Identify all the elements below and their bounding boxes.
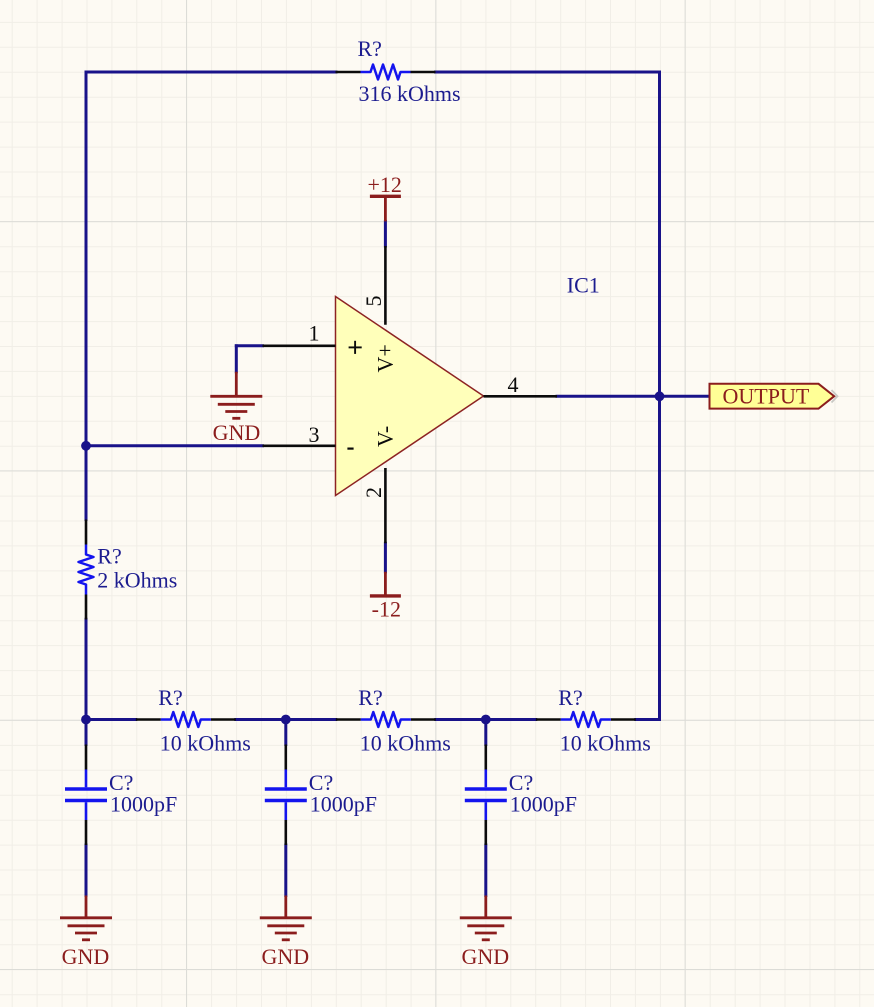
wire: C3 top [484, 720, 487, 745]
capacitor C? 1000pF #3 [465, 745, 577, 846]
svg-text:1000pF: 1000pF [110, 792, 177, 817]
wire: C3 bottom to ground [484, 845, 487, 896]
svg-text:316 kOhms: 316 kOhms [359, 81, 461, 106]
capacitor C? 1000pF #2 [265, 745, 377, 846]
svg-text:R?: R? [358, 685, 382, 710]
svg-text:2 kOhms: 2 kOhms [97, 568, 177, 593]
pin 2 (V-) [384, 468, 387, 543]
plus marker [349, 346, 362, 348]
resistor R? 10 kOhms #1 [136, 685, 251, 756]
resistor R? 316 kOhms [336, 36, 461, 106]
wire: output net [557, 395, 710, 398]
wire: bottom chain segment 1 [86, 718, 136, 721]
op-amp IC1 [263, 246, 600, 543]
svg-text:R?: R? [358, 36, 382, 61]
wire: C2 bottom to ground [284, 845, 287, 896]
wire: bottom chain segment 6 [636, 718, 660, 721]
pin 4 (output) [484, 395, 558, 398]
svg-text:IC1: IC1 [567, 273, 600, 298]
wire: left rail upper [85, 72, 88, 446]
pin 1 (non-inverting input) [263, 344, 336, 347]
wire: top feedback net, right segment [436, 71, 660, 74]
ground GND for C3 [460, 896, 512, 970]
pin 5 (V+) [384, 246, 387, 325]
pin 3 (inverting input) [263, 444, 336, 447]
minus marker [347, 448, 353, 450]
svg-text:-12: -12 [372, 597, 401, 622]
resistor R? 10 kOhms #2 [336, 685, 451, 756]
svg-text:V+: V+ [373, 344, 398, 372]
svg-text:1: 1 [309, 320, 320, 345]
wire: C2 top [284, 720, 287, 745]
wire: V+ supply stub [384, 221, 387, 246]
wire: left rail middle (to R 2k) [85, 446, 88, 520]
wire: non-inverting input to ground, vertical [235, 346, 238, 372]
resistor R? 10 kOhms #3 [536, 685, 651, 756]
svg-text:1000pF: 1000pF [510, 792, 577, 817]
port OUTPUT [710, 383, 838, 408]
svg-text:5: 5 [361, 296, 386, 307]
wire: C1 top [85, 720, 88, 745]
wire: C1 bottom to ground [85, 845, 88, 896]
ground GND at non-inverting input [210, 372, 262, 445]
wire: bottom chain segment 3 [286, 718, 336, 721]
svg-text:3: 3 [309, 422, 320, 447]
svg-text:GND: GND [62, 944, 110, 969]
svg-text:10 kOhms: 10 kOhms [560, 731, 651, 756]
svg-text:R?: R? [158, 685, 182, 710]
svg-text:1000pF: 1000pF [310, 792, 377, 817]
wire: bottom chain segment 2 [236, 718, 286, 721]
port tip chevron [832, 390, 838, 403]
node: RC chain junction 3 [481, 715, 491, 725]
wire: left rail lower (R 2k to bottom chain) [85, 619, 88, 719]
resistor R? 2 kOhms [79, 520, 178, 620]
wire: inverting input net [86, 444, 263, 447]
wire: top feedback net, left segment [86, 71, 336, 74]
svg-text:R?: R? [97, 544, 121, 569]
node: output junction [655, 391, 665, 401]
wire: right rail [658, 72, 661, 720]
wire: V- supply stub [384, 543, 387, 572]
ground GND for C1 [60, 896, 112, 970]
wire: bottom chain segment 5 [486, 718, 536, 721]
svg-text:OUTPUT: OUTPUT [723, 383, 810, 408]
svg-text:V-: V- [373, 426, 398, 447]
svg-text:GND: GND [261, 944, 309, 969]
svg-text:10 kOhms: 10 kOhms [360, 731, 451, 756]
node: RC chain junction 1 [81, 715, 91, 725]
node: inverting input junction [81, 441, 91, 451]
svg-text:10 kOhms: 10 kOhms [160, 731, 251, 756]
wire: bottom chain segment 4 [436, 718, 486, 721]
svg-text:+12: +12 [367, 172, 401, 197]
node: RC chain junction 2 [281, 715, 291, 725]
wire: non-inverting input to ground, horizontal [236, 344, 262, 347]
capacitor C? 1000pF #1 [65, 745, 177, 846]
ground GND for C2 [260, 896, 312, 970]
power +12 [367, 172, 401, 222]
svg-text:4: 4 [508, 372, 519, 397]
svg-text:GND: GND [213, 420, 261, 445]
svg-text:R?: R? [558, 685, 582, 710]
svg-text:2: 2 [361, 487, 386, 498]
svg-text:GND: GND [461, 944, 509, 969]
power -12 [370, 572, 401, 622]
